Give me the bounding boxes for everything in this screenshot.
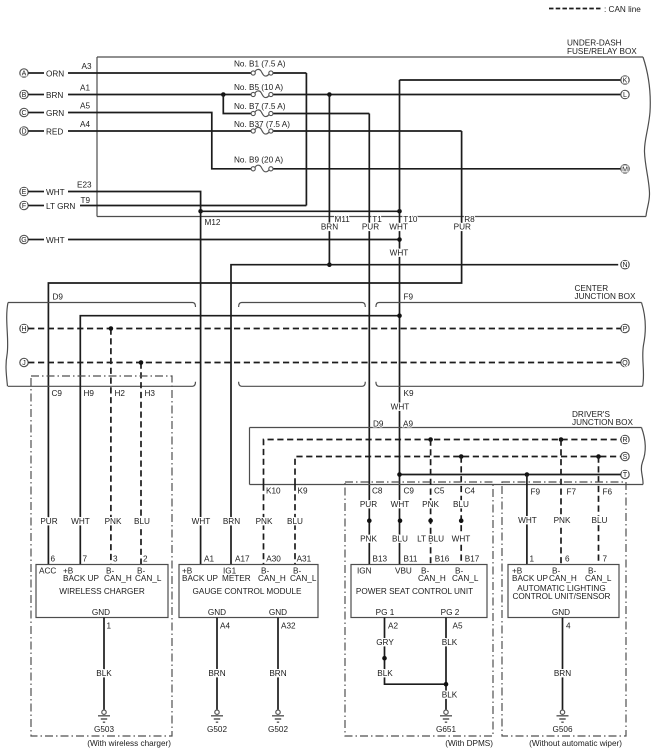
label BRN gauge wire [222,517,240,526]
label WHT wireless wire [71,517,90,526]
wire gauge GND2 to G502 [277,618,279,710]
svg-text:A1: A1 [80,84,90,93]
connector M [621,165,629,174]
svg-text:BLK: BLK [96,669,112,678]
junction M11 on wire B [327,92,332,97]
svg-text:D9: D9 [373,420,384,429]
svg-text:4: 4 [566,622,571,631]
svg-text:B17: B17 [465,554,480,563]
svg-text:A31: A31 [297,554,312,563]
svg-text:F: F [22,203,26,210]
svg-text:WHT: WHT [391,403,410,412]
svg-text:6: 6 [51,554,56,563]
svg-text:GRY: GRY [376,638,394,647]
svg-text:D9: D9 [53,293,64,302]
svg-text:K9: K9 [298,487,308,496]
svg-text:B13: B13 [373,554,388,563]
svg-text:BLU: BLU [392,535,408,544]
label BRN gauge gnd2 [269,669,287,678]
bus wire H9 inside center box [80,316,399,565]
svg-text:WHT: WHT [71,517,90,526]
wire N line with BRN drop to gauge [231,265,618,565]
connector K [621,76,629,85]
svg-text:G502: G502 [207,725,227,734]
svg-text:WHT: WHT [192,517,211,526]
label WHT below G junction [390,249,409,258]
svg-text:A2: A2 [388,622,398,631]
wire gauge GND1 to G502 [216,618,218,710]
connector N [621,261,629,270]
svg-text:2: 2 [143,554,148,563]
svg-text:ORN: ORN [46,70,64,79]
svg-text:(With DPMS): (With DPMS) [445,739,493,748]
svg-text:WHT: WHT [46,188,65,197]
label BLU F6 wire [589,516,607,525]
automatic lighting control unit/sensor box [508,565,619,618]
label BLU wireless wire [133,517,151,526]
label BRN auto [553,669,571,678]
CAN J line J to Q [28,362,621,364]
svg-text:PNK: PNK [360,535,377,544]
svg-text:BACK UP: BACK UP [63,574,99,583]
connector F [20,201,76,211]
svg-text:ACC: ACC [39,566,56,575]
svg-text:BRN: BRN [269,669,286,678]
fuse No. B37 (7.5 A) [234,120,462,134]
CAN S line in driver's box [295,457,621,485]
svg-text:T: T [623,472,628,479]
svg-text:7: 7 [83,554,88,563]
label LT BLU B16 wire [414,535,447,544]
svg-text:A4: A4 [80,120,90,129]
svg-text:3: 3 [113,554,118,563]
wire F9 WHT to auto lighting [526,475,528,565]
variant box with DPMS [345,482,493,748]
wire A (ORN) to fuse B1 [68,72,251,74]
svg-text:K: K [623,78,628,85]
svg-text:GND: GND [269,608,287,617]
svg-text:PG 1: PG 1 [376,608,395,617]
svg-text:IGN: IGN [357,566,372,575]
wire T1 column from fuse B7 to power seat [368,114,370,565]
wire M12 junction to T10 column [201,210,400,212]
svg-text:: CAN line: : CAN line [604,5,641,14]
svg-text:E23: E23 [77,181,92,190]
ground G502 b [268,710,288,734]
svg-text:GND: GND [552,608,570,617]
svg-text:PUR: PUR [362,223,379,232]
svg-text:PUR: PUR [454,223,471,232]
svg-text:A1: A1 [204,554,214,563]
CAN line legend [549,5,641,14]
connector R [621,435,629,444]
label WHT C9 wire [391,500,410,509]
wire power seat PG1 GRY/BLK [385,618,447,685]
svg-text:G: G [21,237,26,244]
svg-text:CONTROL UNIT/SENSOR: CONTROL UNIT/SENSOR [513,592,611,601]
svg-text:C9: C9 [404,487,415,496]
svg-text:A9: A9 [403,420,413,429]
svg-text:BRN: BRN [321,223,338,232]
svg-text:S: S [623,454,628,461]
connector A [20,69,64,79]
connector H [20,324,28,333]
svg-text:R: R [622,437,627,444]
wire C (GRN) down to fuse B9 [68,113,251,169]
svg-text:P: P [623,326,628,333]
svg-text:BRN: BRN [223,517,240,526]
wire G (WHT) to T10 junction [68,239,400,241]
wire M11 column [328,95,330,265]
svg-text:WIRELESS CHARGER: WIRELESS CHARGER [59,587,145,596]
junction F7 on R line [559,437,564,442]
svg-text:C: C [21,110,26,117]
splice dot C5 wire [428,518,433,523]
svg-text:FUSE/RELAY BOX: FUSE/RELAY BOX [567,47,637,56]
svg-text:K10: K10 [266,487,281,496]
CAN C5 wire to power seat [430,440,432,565]
svg-text:C4: C4 [465,487,476,496]
svg-text:LT BLU: LT BLU [417,535,444,544]
svg-text:A3: A3 [82,62,92,71]
svg-text:CAN_L: CAN_L [452,574,479,583]
svg-text:WHT: WHT [389,223,408,232]
connector C [20,108,64,118]
svg-text:A17: A17 [235,554,250,563]
svg-text:GND: GND [208,608,226,617]
svg-text:CAN_L: CAN_L [290,574,317,583]
wire to connector K [400,79,621,81]
svg-text:CAN_H: CAN_H [418,574,446,583]
junction F6 on S line [596,454,601,459]
svg-text:BLK: BLK [377,669,393,678]
label BLU C4 wire [452,500,470,509]
svg-text:No. B37 (7.5 A): No. B37 (7.5 A) [234,120,290,129]
svg-text:GND: GND [92,608,110,617]
svg-text:G651: G651 [436,725,456,734]
svg-text:N: N [622,262,627,269]
svg-text:PNK: PNK [554,516,571,525]
svg-text:BLU: BLU [134,517,150,526]
svg-text:PNK: PNK [256,517,273,526]
svg-text:A30: A30 [266,554,281,563]
junction bus on F9 column [397,313,402,318]
svg-text:RED: RED [46,128,63,137]
svg-text:WHT: WHT [46,236,65,245]
svg-text:BLU: BLU [453,500,469,509]
connector Q [621,358,629,367]
CAN H3 drop to wireless charger [140,363,142,565]
connector D [20,127,64,137]
label CENTER JUNCTION BOX [575,284,636,301]
label T1 PUR [361,215,382,232]
label M11 BRN [320,215,350,232]
wire E (WHT) to M12 junction [68,192,201,212]
svg-text:M12: M12 [205,218,221,227]
svg-text:No. B1 (7.5 A): No. B1 (7.5 A) [234,60,286,69]
svg-text:No. B9 (20 A): No. B9 (20 A) [234,156,283,165]
splice dot C9 wire [398,518,403,523]
center junction box left torn edge [6,303,8,387]
splice dot C4 wire [459,518,464,523]
wire wireless GND to G503 [103,618,105,710]
fuse No. B5 (10 A) [234,83,621,98]
svg-text:Q: Q [622,360,628,367]
ground G503 [94,710,114,734]
wire R8 down then left to D9 column [48,131,461,565]
svg-text:PUR: PUR [40,517,57,526]
fuse No. B9 (20 A) [234,156,621,172]
svg-text:A5: A5 [80,102,90,111]
svg-text:C9: C9 [52,389,63,398]
svg-text:1: 1 [530,554,535,563]
label PNK F7 wire [553,516,571,525]
wire B (BRN) to fuse B5 [68,94,251,96]
svg-text:BACK UP: BACK UP [512,574,548,583]
svg-text:CAN_L: CAN_L [585,574,612,583]
svg-text:WHT: WHT [391,500,410,509]
svg-text:CAN_H: CAN_H [104,574,132,583]
label BLK wireless [95,669,113,678]
svg-text:E: E [22,189,27,196]
svg-text:B16: B16 [435,554,450,563]
label WHT B17 wire [452,535,471,544]
svg-text:PUR: PUR [360,500,377,509]
svg-text:K9: K9 [404,389,414,398]
CAN H line H to P [28,328,621,330]
svg-text:J: J [22,360,26,367]
label PNK C5 wire [422,500,440,509]
gauge control module box [179,565,318,618]
svg-text:F7: F7 [567,488,577,497]
T line WHT in driver's box [400,474,621,476]
label GRY [376,638,394,647]
svg-text:C8: C8 [372,487,383,496]
CAN F7 wire to auto lighting [560,440,562,565]
svg-text:JUNCTION BOX: JUNCTION BOX [572,418,633,427]
svg-text:F9: F9 [531,488,541,497]
wire junction B to fuse B7 [223,95,251,114]
CAN H2 drop to wireless charger [110,329,112,565]
label BLU B11 wire [391,535,409,544]
svg-text:BLU: BLU [287,517,303,526]
svg-text:T9: T9 [81,196,91,205]
connector L [621,90,629,99]
svg-text:GAUGE CONTROL MODULE: GAUGE CONTROL MODULE [193,587,302,596]
label WHT K9 wire [391,403,410,412]
label WHT F9 wire [518,516,537,525]
svg-text:A: A [22,71,27,78]
label BLK PG1 [376,669,394,678]
svg-text:POWER SEAT CONTROL UNIT: POWER SEAT CONTROL UNIT [356,587,473,596]
junction PG1 joins PG2 wire [444,682,449,687]
wire auto lighting GND to G506 [562,618,564,710]
wire F (LT GRN) to B1 drop [80,205,306,207]
under-dash fuse/relay box [97,39,650,217]
fuse No. B1 (7.5 A) [234,60,306,77]
junction H3 on J line [139,360,144,365]
svg-text:H3: H3 [145,389,156,398]
svg-text:1: 1 [107,622,112,631]
svg-text:BRN: BRN [554,669,571,678]
svg-text:PNK: PNK [422,500,439,509]
label WHT gauge wire [192,517,211,526]
label PUR C8 wire [359,500,377,509]
variant box with wireless charger [31,376,172,748]
svg-text:D: D [21,129,26,136]
svg-text:CAN_L: CAN_L [135,574,162,583]
label BLK below junction [440,691,458,700]
CAN C4 wire to power seat [460,457,462,565]
connector E [20,187,65,197]
connector P [621,324,629,333]
svg-text:(With wireless charger): (With wireless charger) [87,739,171,748]
svg-text:A4: A4 [220,622,230,631]
svg-text:G502: G502 [268,725,288,734]
junction on T10 column [397,209,402,214]
junction F9 on T line [525,472,530,477]
wire D (RED) to fuse B37 [68,130,251,132]
svg-text:CAN_H: CAN_H [549,574,577,583]
label R8 PUR [453,215,475,232]
svg-text:F9: F9 [404,293,414,302]
wire T10 column K to driver's box [399,80,401,565]
fuse No. B7 (7.5 A) [234,102,369,117]
svg-text:(Without automatic wiper): (Without automatic wiper) [529,739,622,748]
ground G502 a [207,710,227,734]
svg-text:BRN: BRN [46,91,63,100]
svg-text:BRN: BRN [208,669,225,678]
driver's junction box [250,410,646,485]
connector B [20,90,64,100]
label PUR wireless wire [40,517,58,526]
svg-text:7: 7 [603,554,608,563]
label T10 WHT [389,215,418,232]
wire power seat PG2 BLK to G651 [445,618,447,710]
junction on wire B feeding fuse B7 [221,92,226,97]
junction T line at C9 column [397,472,402,477]
wire M12 column down to gauge module [200,211,202,564]
CAN R line in driver's box [264,440,621,485]
CAN K10 wire to gauge module [263,485,265,565]
svg-text:C5: C5 [434,487,445,496]
ground G651 [436,710,456,734]
wireless charger box [36,565,168,618]
svg-text:WHT: WHT [452,535,471,544]
center junction box top edge [8,303,642,308]
svg-text:VBU: VBU [395,566,412,575]
svg-text:BLU: BLU [592,516,608,525]
junction M12 node [198,209,203,214]
svg-text:L: L [623,92,627,99]
junction M11 on N wire [327,262,332,267]
ground G506 [552,710,572,734]
connector J [20,358,28,367]
svg-text:G506: G506 [552,725,572,734]
wire from fuse B1 down to wire F net [305,73,307,206]
power seat control unit box [351,565,487,618]
svg-text:6: 6 [565,554,570,563]
CAN K9 wire to gauge module [294,485,296,565]
connector G [20,235,65,245]
variant box without automatic wiper [502,482,626,748]
CAN F6 wire to auto lighting [598,457,600,565]
svg-text:A32: A32 [281,622,296,631]
svg-text:A5: A5 [453,622,463,631]
connector T [621,470,629,479]
svg-text:GRN: GRN [46,109,64,118]
label BRN gauge gnd1 [208,669,226,678]
svg-text:BACK UP: BACK UP [182,574,218,583]
svg-text:G503: G503 [94,725,114,734]
connector S [621,452,629,461]
label PNK B13 wire [359,535,377,544]
svg-text:BLK: BLK [442,691,458,700]
svg-text:CAN_H: CAN_H [258,574,286,583]
svg-text:H: H [21,326,26,333]
junction wire G on T10 [397,237,402,242]
junction C5 on R line [428,437,433,442]
svg-text:B11: B11 [404,554,418,563]
svg-text:WHT: WHT [518,516,537,525]
junction H2 on H line [109,326,114,331]
center junction box bottom edge [8,382,643,387]
svg-text:PG 2: PG 2 [441,608,460,617]
label BLU gauge wire [286,517,304,526]
svg-text:B: B [22,92,27,99]
svg-text:M: M [622,166,628,173]
svg-text:H2: H2 [115,389,126,398]
svg-text:F6: F6 [603,488,613,497]
svg-text:H9: H9 [84,389,95,398]
center junction box right torn edge [642,303,646,387]
splice dot C8 wire [367,518,372,523]
junction C4 on S line [459,454,464,459]
label BLK PG2 [440,638,458,647]
svg-text:BLK: BLK [442,638,458,647]
svg-text:PNK: PNK [105,517,122,526]
svg-text:WHT: WHT [390,249,409,258]
splice dot PG1 wire [382,656,387,661]
svg-text:METER: METER [222,574,251,583]
label PNK gauge wire [255,517,273,526]
svg-text:JUNCTION BOX: JUNCTION BOX [575,292,636,301]
label PNK wireless wire [104,517,122,526]
svg-text:LT GRN: LT GRN [46,202,75,211]
